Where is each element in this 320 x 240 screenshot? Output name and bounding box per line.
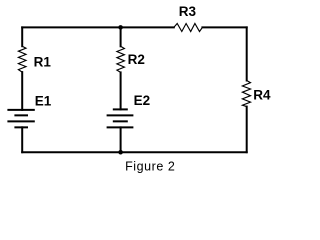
svg-text:E2: E2 xyxy=(134,93,151,108)
svg-text:Figure 2: Figure 2 xyxy=(125,160,175,174)
svg-text:R1: R1 xyxy=(34,55,52,70)
svg-text:E1: E1 xyxy=(35,93,52,108)
svg-text:R3: R3 xyxy=(179,4,197,19)
svg-text:R2: R2 xyxy=(128,52,145,67)
svg-text:R4: R4 xyxy=(253,87,271,102)
